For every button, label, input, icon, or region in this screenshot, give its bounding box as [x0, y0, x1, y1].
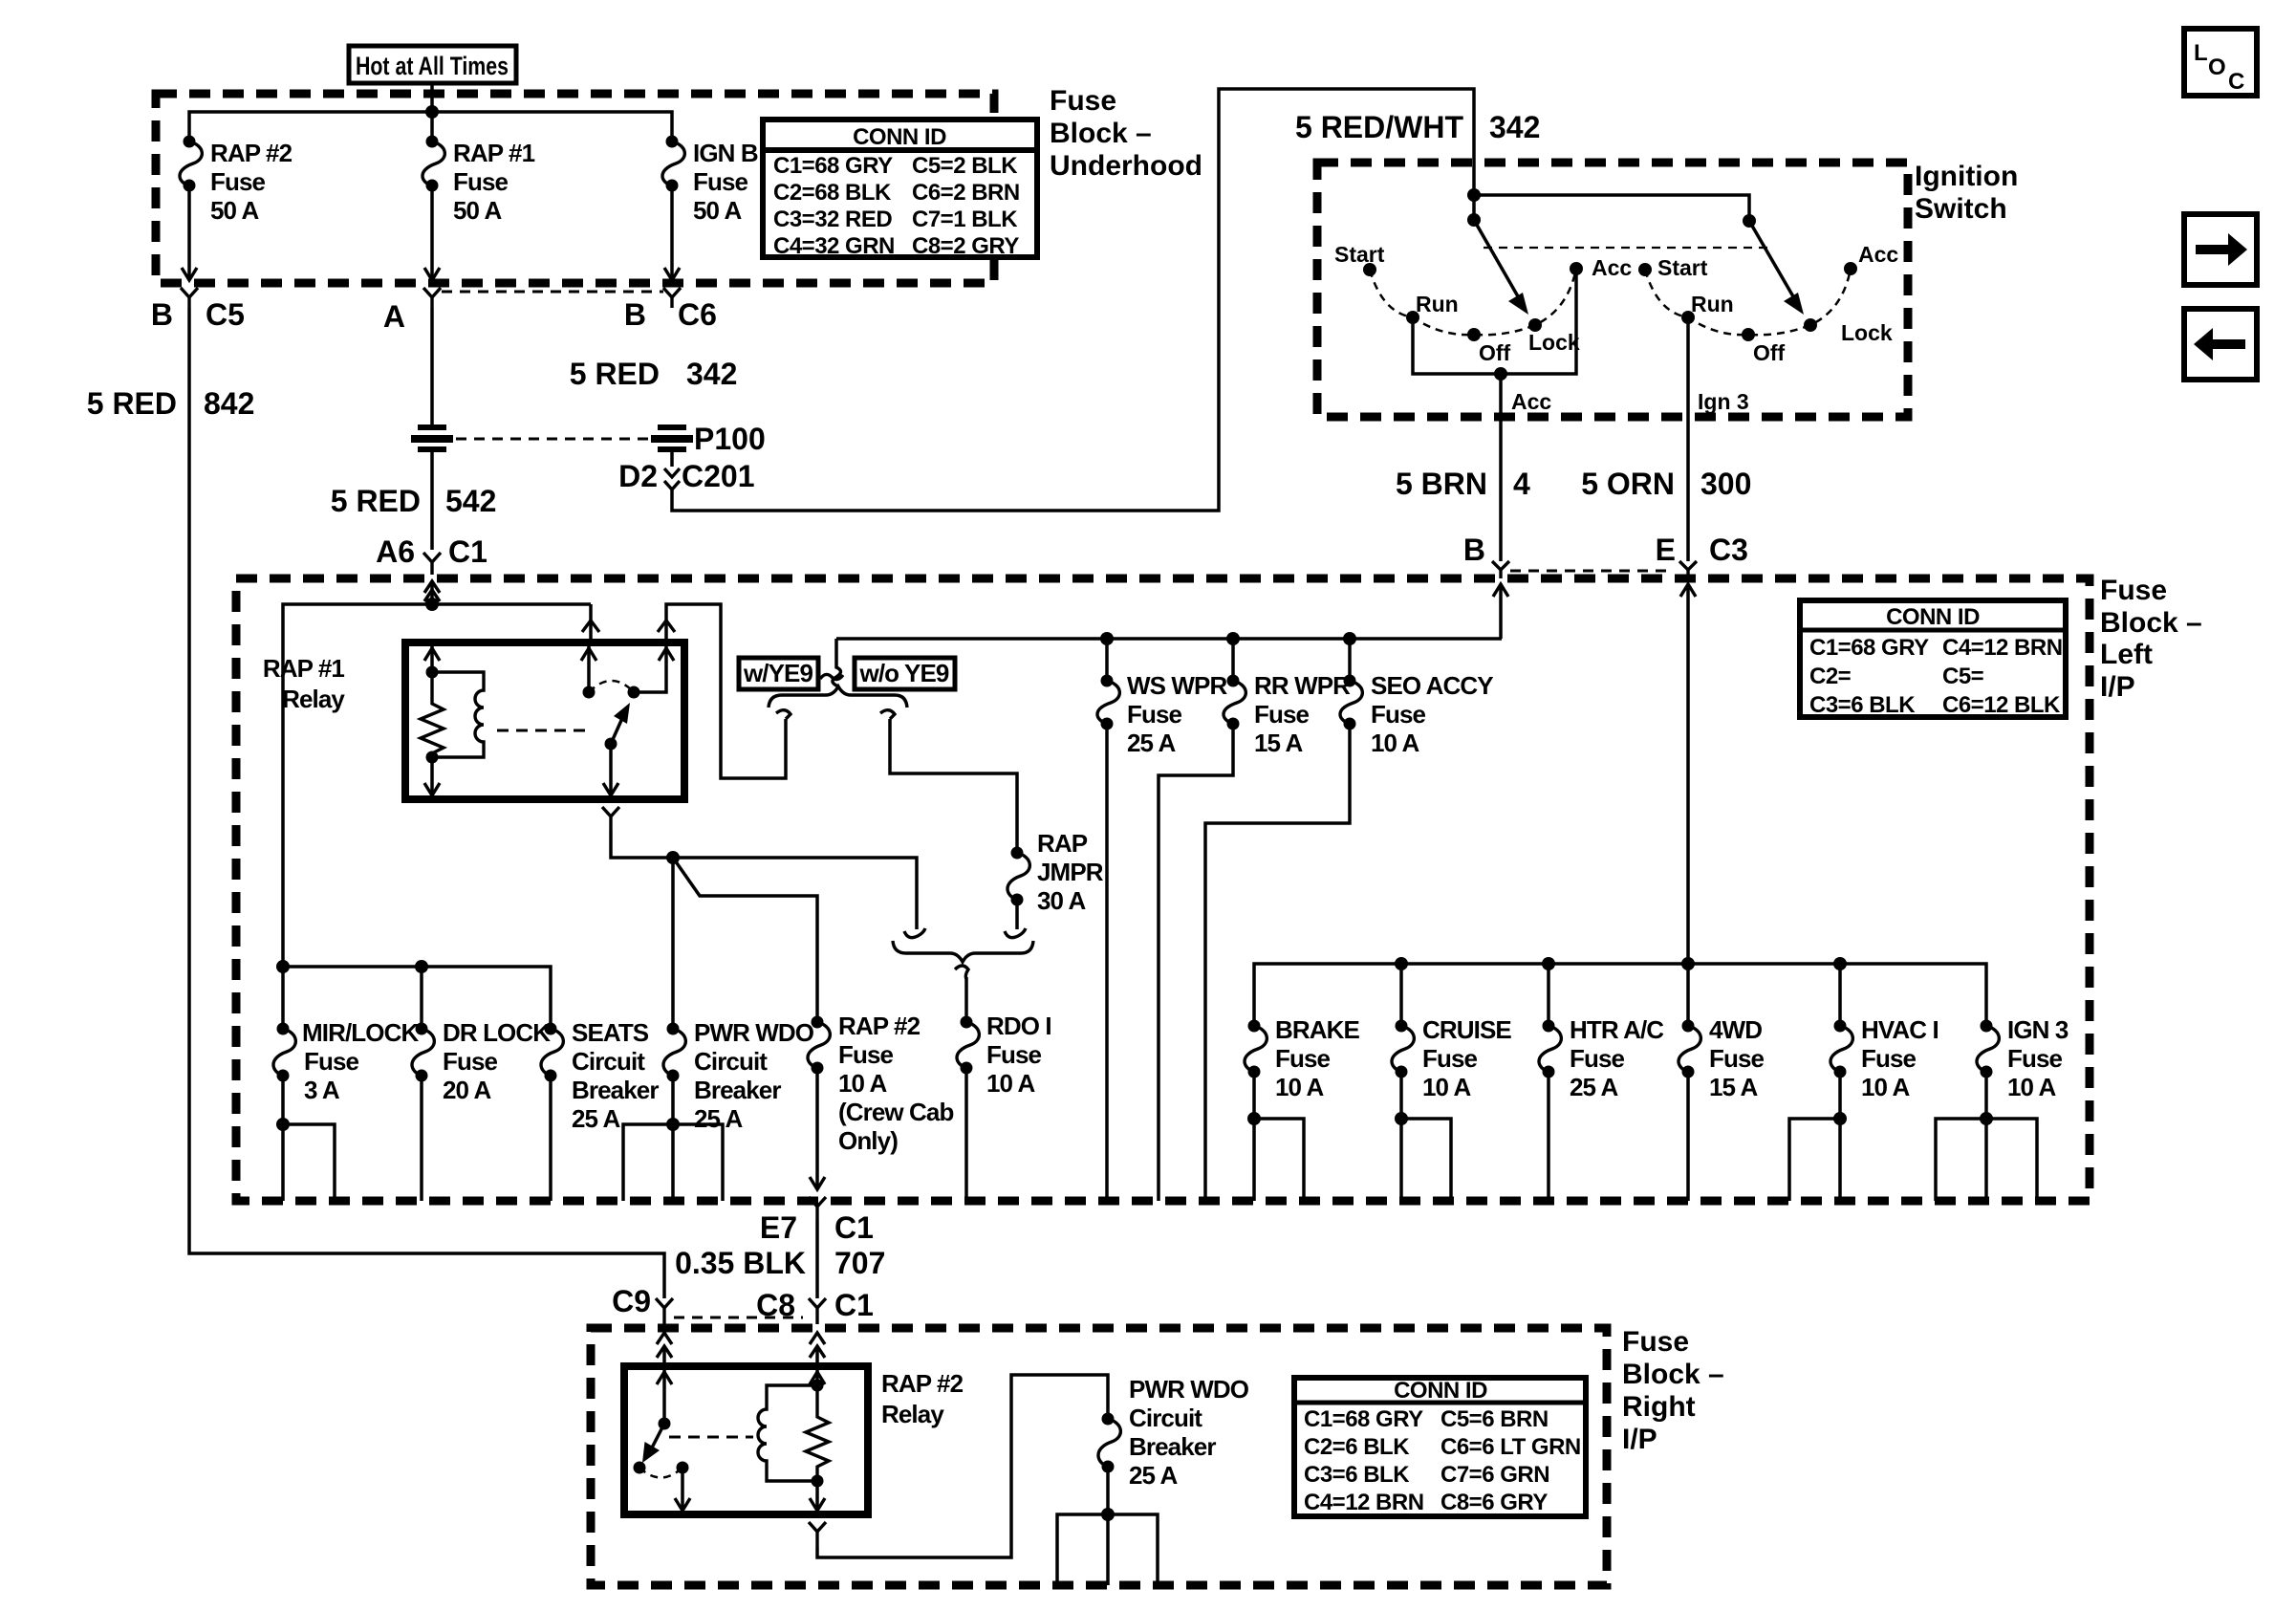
wire: left 5 RED 842 long run to C9	[189, 308, 664, 1298]
connector row: thin dashed strip under box	[442, 291, 663, 294]
svg-text:C2=6 BLK: C2=6 BLK	[1304, 1434, 1410, 1460]
contact foot left	[904, 928, 925, 938]
wire: dashed grommet link	[456, 438, 648, 441]
svg-text:Left: Left	[2100, 639, 2153, 670]
fuse CRUISE 10A	[1392, 1015, 1511, 1101]
wire: upper accessory bus	[836, 637, 1502, 641]
connector A6 C1	[376, 534, 487, 575]
svg-text:Fuse: Fuse	[2007, 1044, 2063, 1073]
svg-text:C3: C3	[1709, 533, 1748, 567]
svg-text:Breaker: Breaker	[572, 1076, 659, 1104]
svg-text:w/YE9: w/YE9	[743, 659, 813, 687]
svg-text:MIR/LOCK: MIR/LOCK	[302, 1018, 419, 1047]
wire: junction down to PWR WDO breaker	[671, 858, 675, 1029]
svg-text:5 RED: 5 RED	[331, 484, 421, 518]
svg-text:300: 300	[1700, 467, 1751, 501]
svg-text:C: C	[2228, 69, 2244, 95]
svg-text:3 A: 3 A	[304, 1076, 340, 1104]
svg-text:C2=: C2=	[1809, 664, 1852, 689]
svg-text:Run: Run	[1416, 292, 1459, 316]
svg-text:C6=6 LT GRN: C6=6 LT GRN	[1440, 1434, 1581, 1460]
fuse RAP #2 10A (mid box)	[808, 1012, 953, 1155]
svg-text:B: B	[1463, 533, 1485, 567]
table: CONN ID right IP	[1294, 1378, 1586, 1516]
svg-text:50 A: 50 A	[453, 196, 502, 225]
svg-text:C6=12 BLK: C6=12 BLK	[1942, 692, 2061, 718]
svg-text:O: O	[2208, 54, 2225, 80]
label: 5 RED/WHT 342	[1295, 110, 1540, 144]
wire: C8 entry double chevron	[810, 1333, 825, 1366]
wire: Ign 3 output	[1688, 317, 1749, 561]
svg-text:Fuse: Fuse	[838, 1040, 894, 1069]
svg-text:Ignition: Ignition	[1915, 161, 2018, 192]
fuse WS WPR 25A	[1097, 639, 1227, 757]
svg-text:BRAKE: BRAKE	[1275, 1015, 1360, 1044]
svg-text:IGN 3: IGN 3	[2007, 1015, 2069, 1044]
icon: left arrow box	[2184, 309, 2257, 380]
svg-text:5 RED: 5 RED	[570, 357, 660, 391]
svg-text:w/o YE9: w/o YE9	[859, 659, 949, 687]
wire: E feed arrow into box down to lower bus	[1680, 584, 1696, 964]
breaker SEATS 25A	[541, 1018, 659, 1133]
svg-text:C8=6 GRY: C8=6 GRY	[1440, 1490, 1548, 1515]
dashed link coil to switch	[497, 729, 585, 732]
svg-text:Fuse: Fuse	[1709, 1044, 1765, 1073]
option label box w/o YE9	[855, 658, 955, 689]
connector C9	[612, 1284, 673, 1324]
wire: diagonal to RAP#2 fuse feed	[673, 858, 817, 1022]
label: 0.35 BLK 707	[675, 1246, 885, 1280]
wire: PWR WDO below + staple	[623, 1076, 723, 1201]
wire: left distribution bus	[283, 967, 551, 1029]
fuse block underhood dashed box	[156, 94, 994, 283]
svg-text:Relay: Relay	[881, 1400, 944, 1428]
switch fixed contacts	[583, 686, 596, 699]
svg-text:542: 542	[445, 484, 496, 518]
svg-text:Fuse: Fuse	[1275, 1044, 1331, 1073]
squiggle to RDO I	[955, 966, 968, 979]
coil return to bottom edge arrow	[430, 757, 434, 795]
svg-text:SEATS: SEATS	[572, 1018, 649, 1047]
wire: SEATS to bottom	[549, 1076, 552, 1201]
svg-text:C4=12 BRN: C4=12 BRN	[1942, 635, 2063, 661]
breaker PWR WDO 25A (right IP)	[1098, 1375, 1249, 1490]
wire: right fork to RAP JMPR	[890, 719, 1017, 853]
wire: DR LOCK to bottom	[420, 1076, 423, 1201]
wire: RAP#2 fuse to edge, down arrow	[182, 185, 197, 280]
fuse 4WD 15A	[1679, 1015, 1765, 1101]
fuse SEO ACCY 10A	[1340, 639, 1493, 757]
fuse HTR A/C 25A	[1539, 1015, 1664, 1101]
svg-text:C1: C1	[834, 1288, 874, 1322]
coil	[758, 1385, 817, 1481]
svg-text:25 A: 25 A	[694, 1104, 743, 1133]
coil return to bottom edge arrow	[815, 1481, 819, 1511]
node: bus junction at RAP #1	[425, 105, 439, 119]
svg-text:0.35 BLK: 0.35 BLK	[675, 1246, 806, 1280]
left rotary contacts	[1334, 242, 1632, 365]
svg-text:Lock: Lock	[1528, 330, 1580, 355]
wire: bus drop to option brace	[833, 639, 841, 686]
svg-text:C1=68 GRY: C1=68 GRY	[773, 153, 893, 179]
svg-text:15 A: 15 A	[1254, 729, 1303, 757]
svg-text:10 A: 10 A	[1861, 1073, 1910, 1101]
svg-text:C5=6 BRN: C5=6 BRN	[1440, 1406, 1549, 1432]
svg-text:CONN ID: CONN ID	[1886, 604, 1980, 630]
svg-text:L: L	[2194, 40, 2207, 66]
wire: A drop to grommet	[430, 308, 434, 425]
svg-text:CONN ID: CONN ID	[853, 124, 946, 150]
svg-text:C4=32 GRN: C4=32 GRN	[773, 233, 895, 259]
svg-text:C5=2 BLK: C5=2 BLK	[912, 153, 1018, 179]
svg-text:Circuit: Circuit	[694, 1047, 768, 1076]
svg-text:5 RED/WHT: 5 RED/WHT	[1295, 110, 1463, 144]
resistor	[806, 1385, 829, 1481]
svg-text:E7: E7	[760, 1210, 797, 1245]
wire: MIR/LOCK below + staple	[276, 1076, 335, 1201]
switch pin from C9	[662, 1370, 666, 1424]
svg-text:10 A: 10 A	[838, 1069, 887, 1098]
wire: RAP JMPR down to foot	[1015, 900, 1019, 929]
fuse BRAKE 10A	[1245, 1015, 1360, 1101]
svg-text:RAP #1: RAP #1	[453, 139, 535, 167]
svg-text:C8: C8	[756, 1288, 795, 1322]
svg-text:Start: Start	[1334, 242, 1385, 267]
relay RAP#1 internals	[421, 646, 674, 795]
svg-text:C5=: C5=	[1942, 664, 1984, 689]
label: RAP #1 Relay	[263, 654, 346, 713]
table: CONN ID left IP	[1800, 600, 2066, 718]
svg-text:5 ORN: 5 ORN	[1581, 467, 1675, 501]
svg-text:B: B	[151, 297, 173, 332]
svg-text:Fuse: Fuse	[1622, 1326, 1689, 1358]
svg-text:Fuse: Fuse	[210, 167, 266, 196]
svg-text:Run: Run	[1691, 292, 1734, 316]
svg-text:5 RED: 5 RED	[87, 386, 177, 421]
wire: top feed bus	[189, 112, 672, 142]
svg-text:CONN ID: CONN ID	[1394, 1378, 1487, 1404]
mech link dashed	[1484, 247, 1768, 249]
wire: IGN B fuse to edge, down arrow	[664, 185, 680, 280]
wire: RDO I to bottom edge	[964, 1068, 968, 1201]
svg-text:Fuse: Fuse	[1422, 1044, 1478, 1073]
svg-text:25 A: 25 A	[1129, 1461, 1178, 1490]
fuse DR LOCK 20A	[412, 1018, 551, 1104]
svg-text:Off: Off	[1753, 340, 1786, 365]
fuse IGN 3 10A	[1977, 1015, 2069, 1101]
svg-text:Fuse: Fuse	[1861, 1044, 1917, 1073]
svg-text:Fuse: Fuse	[443, 1047, 498, 1076]
svg-text:Fuse: Fuse	[1127, 700, 1182, 729]
grommet at A wire	[411, 425, 453, 452]
svg-text:PWR WDO: PWR WDO	[1129, 1375, 1249, 1404]
svg-text:C4=12 BRN: C4=12 BRN	[1304, 1490, 1424, 1515]
option label box w/YE9	[739, 658, 818, 689]
fuse RAP #2 50A	[180, 136, 292, 226]
title: Ignition Switch	[1915, 161, 2018, 225]
connector B / C5	[151, 288, 245, 332]
wire: feed bus inside box	[283, 604, 591, 967]
pin arrow left	[430, 646, 434, 672]
svg-text:Lock: Lock	[1841, 320, 1893, 345]
right contact to bottom arrow	[681, 1468, 684, 1511]
connector row C9 C8 C1 thin dashed	[674, 1317, 803, 1319]
switch arm left with arrow	[1474, 220, 1528, 315]
title: Fuse Block - Left I/P	[2100, 575, 2202, 703]
svg-text:342: 342	[1489, 110, 1540, 144]
connector A	[383, 288, 441, 334]
svg-text:10 A: 10 A	[2007, 1073, 2056, 1101]
brace over option forks	[769, 686, 907, 708]
svg-text:A: A	[383, 299, 405, 334]
title: Fuse Block - Right I/P	[1622, 1326, 1724, 1455]
svg-text:Fuse: Fuse	[1050, 85, 1116, 117]
svg-text:Off: Off	[1479, 340, 1511, 365]
connector E7 C1	[760, 1197, 874, 1245]
svg-text:Acc: Acc	[1858, 242, 1898, 267]
wire: feed to right rotary	[1474, 195, 1749, 221]
svg-text:RAP #2: RAP #2	[210, 139, 292, 167]
svg-text:Relay: Relay	[282, 685, 345, 713]
svg-text:Block –: Block –	[2100, 607, 2202, 639]
svg-text:10 A: 10 A	[986, 1069, 1035, 1098]
svg-text:Only): Only)	[838, 1126, 898, 1155]
resistor	[421, 672, 444, 757]
svg-text:JMPR: JMPR	[1037, 858, 1104, 886]
wire: Hot at All Times to bus	[430, 83, 434, 112]
svg-text:C3=6 BLK: C3=6 BLK	[1809, 692, 1916, 718]
svg-text:RR WPR: RR WPR	[1254, 671, 1351, 700]
svg-text:RAP #2: RAP #2	[838, 1012, 921, 1040]
label: RAP #2 Relay	[881, 1369, 964, 1428]
svg-text:4WD: 4WD	[1709, 1015, 1762, 1044]
svg-text:Fuse: Fuse	[1254, 700, 1310, 729]
svg-text:B: B	[624, 297, 646, 332]
grommet P100 at IGN B wire	[651, 422, 766, 456]
label: 5 RED 342	[570, 357, 738, 391]
fuse block right IP dashed box	[591, 1328, 1607, 1585]
label: 5 BRN 4	[1396, 467, 1530, 501]
moving arm	[648, 1424, 664, 1455]
label box: Hot at All Times	[349, 46, 516, 83]
svg-text:10 A: 10 A	[1275, 1073, 1324, 1101]
svg-text:C1=68 GRY: C1=68 GRY	[1809, 635, 1929, 661]
svg-text:C3=6 BLK: C3=6 BLK	[1304, 1462, 1410, 1488]
svg-text:C2=68 BLK: C2=68 BLK	[773, 180, 892, 206]
svg-text:C8=2 GRY: C8=2 GRY	[912, 233, 1019, 259]
fixed contact to top pins	[587, 646, 591, 692]
fork squiggle left	[776, 710, 791, 719]
moving arm	[605, 738, 617, 751]
svg-text:Breaker: Breaker	[694, 1076, 781, 1104]
connector B / C6	[624, 288, 717, 332]
svg-text:707: 707	[834, 1246, 885, 1280]
fixed contacts	[634, 1462, 646, 1474]
svg-text:Acc: Acc	[1511, 389, 1551, 414]
svg-text:Breaker: Breaker	[1129, 1432, 1216, 1461]
svg-text:842: 842	[204, 386, 254, 421]
svg-text:RAP: RAP	[1037, 829, 1088, 858]
svg-text:Fuse: Fuse	[304, 1047, 359, 1076]
svg-text:Switch: Switch	[1915, 193, 2007, 225]
connector Y below relay output	[602, 807, 619, 830]
svg-text:C1: C1	[834, 1210, 874, 1245]
svg-text:Hot at All Times: Hot at All Times	[356, 52, 509, 80]
fuse HVAC I 10A	[1830, 1015, 1939, 1101]
svg-text:Ign 3: Ign 3	[1698, 389, 1749, 414]
svg-text:Start: Start	[1657, 255, 1708, 280]
node: feed junction	[1467, 188, 1481, 202]
breaker PWR WDO (mid box)	[663, 1018, 814, 1133]
switch arm right with arrow	[1749, 221, 1804, 315]
svg-text:I/P: I/P	[2100, 671, 2135, 703]
svg-text:WS WPR: WS WPR	[1127, 671, 1227, 700]
wire: WS WPR to bottom	[1105, 724, 1109, 1201]
wire: IGN B wire to C201	[670, 450, 674, 467]
svg-text:342: 342	[686, 357, 737, 391]
icon: LOC box	[2184, 29, 2257, 96]
fuse MIR/LOCK 3A	[273, 1018, 419, 1104]
svg-text:RAP #2: RAP #2	[881, 1369, 964, 1398]
svg-text:Fuse: Fuse	[453, 167, 509, 196]
svg-text:RAP #1: RAP #1	[263, 654, 345, 683]
svg-text:50 A: 50 A	[210, 196, 259, 225]
wire: bus drop to relay center pin	[589, 604, 593, 642]
svg-text:C1=68 GRY: C1=68 GRY	[1304, 1406, 1423, 1432]
coil pin from C8	[815, 1370, 819, 1385]
wire: A grommet down to A6	[430, 450, 434, 550]
fuse RDO I 10A	[957, 1012, 1051, 1098]
coil	[432, 672, 484, 757]
wire: relay output to junction	[611, 830, 673, 858]
table: CONN ID underhood	[763, 120, 1037, 259]
ignition switch dashed box	[1317, 163, 1908, 417]
pivot to bottom edge arrow	[609, 744, 613, 795]
svg-text:30 A: 30 A	[1037, 886, 1086, 915]
svg-text:Right: Right	[1622, 1391, 1696, 1423]
node: output junction	[666, 851, 680, 864]
wire: breaker below + staple	[1057, 1467, 1158, 1585]
svg-text:RDO I: RDO I	[986, 1012, 1051, 1040]
svg-text:Circuit: Circuit	[572, 1047, 645, 1076]
squiggle between option boxes	[820, 674, 843, 679]
wire: feed down to left pivot	[1472, 195, 1476, 220]
wire: lower ignition bus	[1254, 964, 1986, 1026]
title: Fuse Block - Underhood	[1050, 85, 1202, 182]
svg-text:(Crew Cab: (Crew Cab	[838, 1098, 953, 1126]
svg-text:Fuse: Fuse	[986, 1040, 1042, 1069]
svg-text:25 A: 25 A	[572, 1104, 620, 1133]
svg-text:Block –: Block –	[1050, 118, 1152, 149]
fork squiggle right	[880, 710, 895, 719]
connector row B / E C3	[1510, 570, 1673, 573]
wire: left rotary outputs to Acc node	[1413, 269, 1576, 561]
svg-text:Fuse: Fuse	[693, 167, 748, 196]
svg-text:PWR WDO: PWR WDO	[694, 1018, 814, 1047]
wire: 342 route from C201 to ignition switch	[672, 89, 1474, 511]
label: 5 ORN 300	[1581, 467, 1751, 501]
fuse RAP JMPR 30A	[1007, 829, 1104, 915]
svg-text:SEO ACCY: SEO ACCY	[1371, 671, 1493, 700]
svg-text:C5: C5	[206, 297, 245, 332]
relay RAP #2 box	[624, 1366, 868, 1514]
wire: 707 wire between connectors	[815, 1220, 819, 1298]
svg-text:P100: P100	[694, 422, 766, 456]
svg-text:25 A: 25 A	[1127, 729, 1176, 757]
wire: RAP#1 fuse to edge, down arrow	[424, 185, 440, 280]
svg-text:C6: C6	[678, 297, 717, 332]
svg-text:C201: C201	[682, 459, 755, 493]
svg-text:10 A: 10 A	[1371, 729, 1419, 757]
arrow into box at A6	[424, 581, 440, 604]
svg-text:15 A: 15 A	[1709, 1073, 1758, 1101]
icon: right arrow box	[2184, 214, 2257, 285]
svg-text:25 A: 25 A	[1570, 1073, 1618, 1101]
fuse RR WPR 15A	[1224, 639, 1351, 757]
svg-text:Fuse: Fuse	[1570, 1044, 1625, 1073]
svg-text:I/P: I/P	[1622, 1424, 1657, 1455]
svg-text:A6: A6	[376, 534, 415, 569]
fuse IGN B 50A	[662, 136, 758, 226]
svg-text:IGN B: IGN B	[693, 139, 758, 167]
svg-text:HVAC I: HVAC I	[1861, 1015, 1939, 1044]
svg-text:HTR A/C: HTR A/C	[1570, 1015, 1664, 1044]
connector C8 C1	[756, 1288, 874, 1324]
svg-text:Acc: Acc	[1592, 255, 1632, 280]
connector C201 double chevron	[618, 459, 754, 493]
svg-text:C7=1 BLK: C7=1 BLK	[912, 207, 1018, 232]
svg-text:Fuse: Fuse	[2100, 575, 2167, 606]
wire: C9 entry double chevron	[657, 1333, 672, 1366]
dashed link	[669, 1436, 753, 1439]
contact foot right	[1005, 928, 1026, 938]
svg-text:20 A: 20 A	[443, 1076, 491, 1104]
svg-text:DR LOCK: DR LOCK	[443, 1018, 551, 1047]
label: 5 RED 542	[331, 484, 497, 518]
svg-text:C3=32 RED: C3=32 RED	[773, 207, 892, 232]
wire: relay right pin zigzag to w/YE9 fork	[666, 604, 786, 778]
relay RAP#2 internals	[634, 1370, 830, 1511]
connector Y below RAP#2 relay	[809, 1522, 826, 1547]
svg-text:Fuse: Fuse	[1371, 700, 1426, 729]
wire: brace to RDO I fuse	[964, 977, 968, 1022]
wire: SEO ACCY route to bottom	[1205, 724, 1350, 1201]
brace under option feet	[893, 941, 1033, 962]
svg-text:Circuit: Circuit	[1129, 1404, 1202, 1432]
svg-text:C9: C9	[612, 1284, 651, 1318]
svg-text:4: 4	[1513, 467, 1530, 501]
wire: RR WPR route to bottom	[1159, 724, 1233, 1201]
svg-text:E: E	[1656, 533, 1676, 567]
svg-text:Underhood: Underhood	[1050, 150, 1202, 182]
wire: junction to w/YE9 contact foot	[673, 858, 917, 929]
svg-text:D2: D2	[618, 459, 658, 493]
wire: RAP#2 fuse to bottom edge with arrow	[810, 1068, 825, 1189]
svg-text:CRUISE: CRUISE	[1422, 1015, 1511, 1044]
label: 5 RED 842	[87, 386, 255, 421]
svg-text:C6=2 BRN: C6=2 BRN	[912, 180, 1020, 206]
fuse block left IP dashed box	[236, 578, 2090, 1201]
svg-text:C1: C1	[448, 534, 487, 569]
svg-text:C7=6 GRN: C7=6 GRN	[1440, 1462, 1549, 1488]
svg-text:5 BRN: 5 BRN	[1396, 467, 1487, 501]
fuse RAP #1 50A	[422, 136, 535, 226]
right rotary contacts	[1638, 242, 1898, 365]
wire: B feed arrow into box	[1493, 584, 1508, 639]
relay RAP #1 box	[405, 642, 684, 799]
svg-text:10 A: 10 A	[1422, 1073, 1471, 1101]
svg-text:Block –: Block –	[1622, 1359, 1724, 1390]
